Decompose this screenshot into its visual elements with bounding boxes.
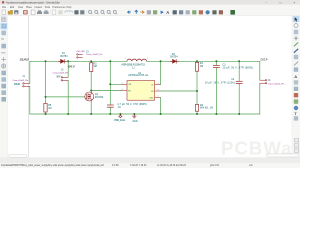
wire J1 vertical upper bbox=[29, 61, 31, 83]
svg-text:Place: Place bbox=[26, 6, 33, 9]
connector J3 bbox=[77, 54, 83, 58]
svg-text:1: 1 bbox=[125, 58, 126, 60]
svg-text:Conn_01x02_Pin: Conn_01x02_Pin bbox=[53, 73, 69, 75]
wire C3 bottom bbox=[215, 68, 217, 114]
junction top rail x91 bbox=[90, 60, 92, 62]
junction gate node bbox=[45, 96, 47, 98]
junction gnd rail x120 pwr flag bbox=[119, 113, 121, 115]
svg-text:BAT: BAT bbox=[57, 76, 62, 79]
wire bottom GND rail bbox=[30, 113, 260, 115]
svg-text:AP3602AKTR-G1: AP3602AKTR-G1 bbox=[128, 74, 149, 77]
junction gnd rail x68 bbox=[67, 113, 69, 115]
ground symbol GND bbox=[132, 114, 136, 118]
left toolbar bbox=[0, 16, 8, 158]
svg-text:BAT54: BAT54 bbox=[170, 56, 178, 59]
window background bbox=[0, 0, 300, 168]
svg-text:GND: GND bbox=[149, 97, 154, 99]
svg-text:A: A bbox=[166, 10, 169, 15]
junction FB node bbox=[196, 90, 198, 92]
chrome separators bbox=[0, 15, 300, 17]
resistor R5 bbox=[44, 103, 47, 112]
diode D1 bbox=[58, 59, 66, 63]
junction top rail x239 bbox=[238, 60, 240, 62]
svg-text:Conn_01x02_Pin: Conn_01x02_Pin bbox=[13, 80, 29, 82]
svg-text:ON_OFF: ON_OFF bbox=[76, 51, 85, 53]
wire FB horizontal bbox=[161, 90, 197, 92]
svg-text:5: 5 bbox=[122, 83, 123, 85]
svg-text:4: 4 bbox=[122, 89, 123, 91]
svg-text:Tools: Tools bbox=[45, 6, 51, 9]
svg-text:in: in bbox=[2, 37, 5, 41]
wire R2 bottom stub bbox=[196, 111, 198, 114]
wire LX vertical bbox=[160, 61, 162, 84]
svg-text:2N7002: 2N7002 bbox=[95, 96, 104, 99]
connector J2 bbox=[61, 77, 68, 81]
svg-text:/tmp/t/slask/PMW3756/tiny_sola: /tmp/t/slask/PMW3756/tiny_solar_power_su… bbox=[1, 164, 105, 167]
pin VIN stub bbox=[121, 83, 127, 85]
junction gnd rail x160 bbox=[160, 113, 162, 115]
junction gnd rail x197 bbox=[196, 113, 198, 115]
status bar bbox=[0, 157, 300, 163]
svg-text:Help: Help bbox=[67, 6, 73, 9]
svg-text:X 48.26 Y 48.26: X 48.26 Y 48.26 bbox=[130, 165, 147, 167]
junction Q1 drain node bbox=[90, 90, 92, 92]
svg-text:Conn_01x02_Pin: Conn_01x02_Pin bbox=[86, 54, 103, 56]
svg-text:3: 3 bbox=[158, 90, 159, 92]
svg-text:GND: GND bbox=[132, 121, 137, 123]
canvas bbox=[8, 16, 292, 158]
junction top rail x216 bbox=[215, 60, 217, 62]
capacitor C3 bbox=[213, 65, 220, 67]
svg-text:mm: mm bbox=[1, 50, 6, 54]
pin EN stub bbox=[121, 90, 127, 92]
scrollbar thumb right bbox=[267, 154, 300, 157]
wire R4 top stub bbox=[196, 61, 198, 62]
wire R3 bottom to Q1 drain bbox=[90, 71, 92, 92]
svg-text:PWR_FLAG: PWR_FLAG bbox=[114, 119, 125, 122]
wire C2 top bbox=[238, 61, 240, 81]
wire R4 to R2 divider bbox=[196, 71, 198, 104]
svg-text:1: 1 bbox=[158, 83, 159, 85]
junction VIN node bbox=[109, 83, 111, 85]
capacitor C1 bbox=[107, 105, 114, 107]
junction top rail x110 bbox=[109, 60, 111, 62]
scrollbar thumb left bbox=[9, 155, 27, 158]
wire J4 vertical lower bbox=[259, 83, 261, 114]
svg-text:604 kΩ, 1%: 604 kΩ, 1% bbox=[200, 107, 214, 110]
title bar bbox=[0, 0, 300, 5]
wire R5 bottom stub bbox=[45, 112, 47, 114]
wire J2 vertical upper bbox=[67, 61, 69, 77]
svg-text:Inspect: Inspect bbox=[35, 6, 43, 9]
svg-text:File: File bbox=[2, 6, 7, 9]
svg-text:*tiny solar power supply [tiny: *tiny solar power supply [tiny solar pow… bbox=[6, 2, 60, 5]
top toolbar bbox=[0, 9, 300, 15]
wire J2 vertical lower bbox=[67, 80, 69, 114]
wire VIN to U1 pin bbox=[110, 83, 121, 85]
wire J4 vertical upper bbox=[259, 61, 261, 80]
junction gnd rail x45.5 bbox=[45, 113, 47, 115]
junction gnd rail x134 gnd symbol bbox=[133, 113, 135, 115]
svg-text:View: View bbox=[18, 6, 23, 9]
resistor R2 bbox=[195, 104, 198, 111]
wire C3 top stub bbox=[215, 61, 217, 65]
junction top rail x68 bbox=[67, 60, 69, 62]
svg-text:BAT54: BAT54 bbox=[60, 55, 68, 58]
svg-text:Preferences: Preferences bbox=[53, 6, 67, 9]
svg-text:2: 2 bbox=[158, 96, 159, 98]
svg-text:1M: 1M bbox=[93, 65, 96, 68]
junction gnd rail x216 bbox=[215, 113, 217, 115]
svg-text:SOLAR: SOLAR bbox=[14, 83, 21, 86]
pin FB stub bbox=[155, 90, 161, 92]
junction gnd rail x110 bbox=[109, 113, 111, 115]
svg-text:Z 2.59: Z 2.59 bbox=[112, 165, 119, 167]
svg-text:OUT_P: OUT_P bbox=[260, 58, 267, 61]
junction top rail x197 bbox=[196, 60, 198, 62]
svg-text:1M: 1M bbox=[48, 107, 51, 110]
junction gnd rail x239 bbox=[238, 113, 240, 115]
wire C1 bottom stub bbox=[109, 107, 111, 114]
svg-text:1M: 1M bbox=[200, 65, 203, 68]
wire C2 bottom bbox=[238, 84, 240, 114]
inductor L1 bbox=[127, 59, 147, 61]
power flag PWR_FLAG bbox=[119, 114, 122, 118]
svg-text:10 µF, 50 V, X7R (0805): 10 µF, 50 V, X7R (0805) bbox=[222, 67, 253, 70]
transistor Q1 bbox=[85, 92, 94, 101]
wire Q1 drain to U1 EN pin bbox=[91, 90, 121, 92]
svg-text:Edit: Edit bbox=[10, 6, 14, 9]
wire J1 vertical lower bbox=[29, 86, 31, 114]
wire VIN vertical bbox=[109, 61, 111, 104]
junction top rail x45.5 bbox=[45, 60, 47, 62]
svg-text:SOLAR_P: SOLAR_P bbox=[20, 59, 30, 62]
wire R5 vertical from rail bbox=[45, 61, 47, 103]
pin LX stub bbox=[155, 84, 161, 86]
diode D3 bbox=[170, 59, 178, 63]
svg-text:BAT_P: BAT_P bbox=[68, 65, 75, 68]
svg-text:dx 48.26 dy 48.26 dist 68.26: dx 48.26 dy 48.26 dist 68.26 bbox=[157, 164, 187, 167]
right toolbar bbox=[292, 16, 300, 158]
wire top rail SOLAR_P/BAT_P/OUT_P bbox=[30, 60, 127, 62]
junction top rail x160 bbox=[160, 60, 162, 62]
wire R3 top stub bbox=[90, 61, 92, 63]
pin GND stub bbox=[155, 97, 161, 99]
menu bar bbox=[0, 5, 300, 9]
connector J4 bbox=[260, 80, 267, 84]
wire Q1 source to GND rail bbox=[90, 101, 92, 114]
svg-text:10 µF, 16 V, X7R (1206): 10 µF, 16 V, X7R (1206) bbox=[205, 81, 235, 84]
svg-text:×: × bbox=[294, 0, 296, 4]
svg-text:2: 2 bbox=[147, 58, 148, 60]
capacitor C2 bbox=[236, 81, 243, 83]
worksheet page left border bbox=[28, 16, 30, 158]
resistor R4 bbox=[195, 62, 198, 71]
svg-text:4.7 µF, 50 V, X7R (0805): 4.7 µF, 50 V, X7R (0805) bbox=[117, 103, 146, 106]
connector J1 bbox=[23, 83, 30, 87]
op-amp U1 (boost regulator IC) bbox=[127, 81, 155, 101]
wire Q1 gate horizontal bbox=[46, 96, 85, 98]
svg-text:Conn_01x02_Pin: Conn_01x02_Pin bbox=[268, 84, 285, 86]
wire U1 GND pin to rail bbox=[160, 98, 162, 115]
svg-text:A: A bbox=[294, 74, 297, 79]
junction gnd rail x91 bbox=[90, 113, 92, 115]
resistor R3 bbox=[90, 63, 93, 72]
svg-text:mm: mm bbox=[249, 165, 253, 167]
svg-text:grid 2.54: grid 2.54 bbox=[210, 164, 220, 167]
